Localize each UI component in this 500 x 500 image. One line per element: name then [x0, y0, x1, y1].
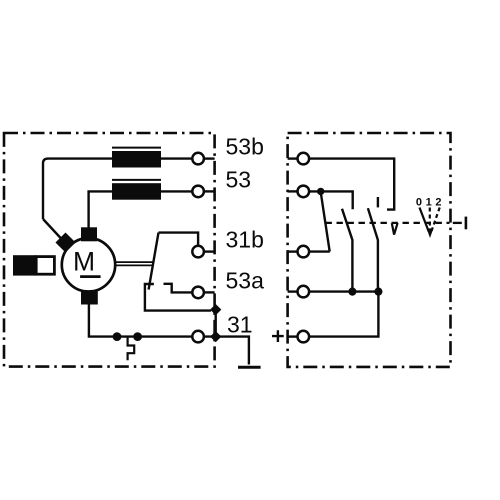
wire: right box border to terminal 53	[288, 190, 298, 192]
wire: terminal 31b to border	[204, 250, 215, 252]
permanent magnet: black half	[13, 255, 36, 275]
position pointer arrow head	[427, 228, 434, 238]
switch blade pole 3	[368, 208, 378, 291]
svg-text:31: 31	[227, 312, 253, 338]
wire 53a inside switch	[309, 290, 378, 292]
svg-text:53: 53	[226, 166, 252, 192]
motor underline	[80, 275, 101, 278]
terminal circle 53b (motor side)	[192, 153, 204, 165]
pole 3 fixed contact stub	[377, 197, 379, 207]
wire: right box border to terminal 31	[288, 335, 298, 337]
resistor R1 body (53b feed)	[112, 151, 161, 168]
switch blade pole 1 (53 to 31b)	[321, 194, 330, 252]
terminal circle 53a (switch side)	[298, 286, 310, 298]
wire: resistor R2 to terminal 53	[161, 190, 192, 192]
wire: right box border to terminal 53b	[288, 157, 298, 159]
svg-text:012: 012	[416, 197, 445, 209]
resistor R2 body (53 feed)	[112, 183, 161, 200]
mechanical link dashed line	[326, 222, 450, 224]
terminal circle 53 (switch side)	[298, 186, 310, 198]
resistor R1 top thin line	[112, 147, 161, 149]
wire 31b: park-switch top bar to terminal	[159, 233, 199, 246]
wire: terminal 53 to border	[204, 190, 215, 192]
junction dot 53a/pole2	[348, 288, 356, 296]
motor shaft double line	[116, 262, 154, 265]
wire: right box border to terminal 31b	[288, 250, 298, 252]
terminal circle 53b (switch side)	[298, 153, 310, 165]
junction dot 53a/pole3	[374, 288, 382, 296]
diamond junction upper	[210, 304, 221, 315]
wire: terminal 31 through border to ground drop	[204, 337, 249, 365]
wire 53: top brush riser and run to resistor R2	[89, 191, 112, 227]
brush top (53)	[81, 227, 97, 241]
park switch blade (motor driven)	[149, 233, 159, 290]
border crossing wire (diamond to diamond)	[214, 310, 216, 337]
permanent magnet: open half	[36, 257, 54, 275]
mechanical link continuation outside box	[453, 222, 462, 224]
wire 31: bottom brush to terminal	[89, 304, 192, 337]
switch blade pole 2	[342, 209, 352, 292]
wire 53b inside switch: to fixed contact hook	[309, 159, 394, 210]
terminal circle 31 (switch side)	[298, 331, 310, 343]
diamond junction lower	[210, 331, 221, 342]
position pointer arm dashed (to 1)	[429, 208, 431, 232]
ground bar	[238, 366, 261, 369]
wire: terminal 53b to border	[204, 157, 215, 159]
brush bottom (31)	[81, 292, 98, 305]
svg-text:53b: 53b	[226, 134, 264, 160]
plus supply symbol	[272, 330, 284, 342]
position pointer arm solid (to 0)	[420, 208, 429, 232]
brush third (53b, 45deg)	[55, 232, 75, 252]
terminal circle 53 (motor side)	[192, 186, 204, 198]
wire: terminal 53a to border	[204, 291, 215, 293]
terminal circle 31 (motor side)	[192, 331, 204, 343]
terminal circle 31b (switch side)	[298, 246, 310, 258]
terminal circle 31b (motor side)	[192, 246, 204, 258]
thermal switch (bimetal step)	[128, 337, 135, 361]
mechanical link end bar	[465, 217, 468, 230]
svg-text:M: M	[73, 246, 95, 276]
park contact 31b side (tick and L to diamond)	[145, 284, 211, 311]
junction dot 31 (left)	[113, 332, 122, 341]
wire 53 inside switch to pole-2 fixed contact stub	[309, 191, 353, 209]
wire: pole3 junction down to 31	[309, 292, 378, 337]
wire: right box border to terminal 53a	[288, 290, 298, 292]
resistor R2 top thin line	[112, 179, 161, 181]
svg-text:31b: 31b	[226, 227, 264, 253]
wire: diagonal from 53b feed to third brush	[43, 219, 62, 240]
svg-text:53a: 53a	[226, 267, 265, 293]
wire 31b inside switch to blade 1 foot	[309, 250, 330, 252]
terminal circle 53a (motor side)	[192, 287, 204, 299]
wire: resistor R1 to terminal 53b	[161, 157, 192, 159]
wire 53b left: corner from vertical feed to resistor R1	[43, 159, 112, 219]
motor M armature circle	[62, 238, 115, 291]
enclosure: wiper switch box (right, dash-dot border)	[288, 133, 451, 367]
junction dot 31 (right)	[133, 332, 142, 341]
junction dot on 53	[317, 188, 324, 195]
position pointer arm dashed (to 2)	[432, 208, 440, 232]
park contact 53a side (step)	[164, 284, 193, 293]
small position pointer v	[392, 223, 398, 235]
enclosure: wiper motor box (left, dash-dot border)	[4, 133, 215, 367]
